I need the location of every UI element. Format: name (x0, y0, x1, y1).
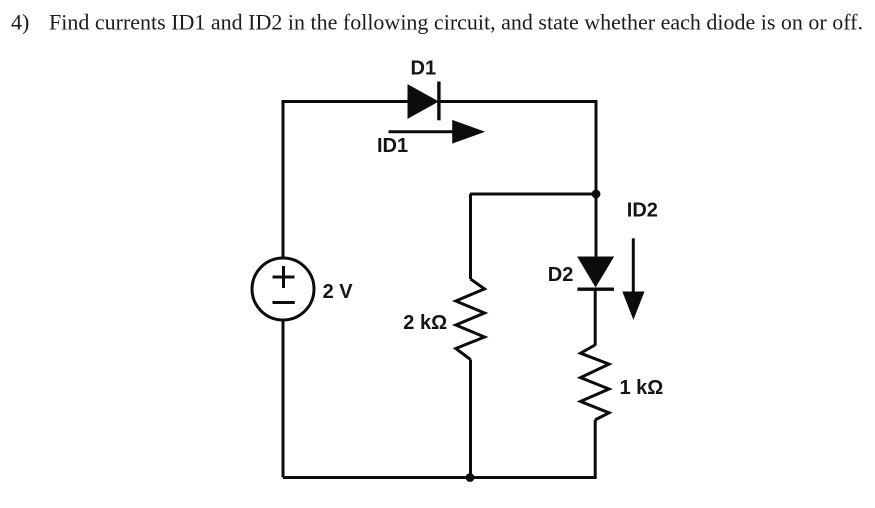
current arrow ID1 (389, 121, 484, 143)
wire: middle branch upper segment (469, 194, 472, 279)
wire: node A down to D2 anode (595, 194, 598, 258)
svg-text:1 kΩ: 1 kΩ (620, 377, 664, 399)
svg-text:2 V: 2 V (323, 281, 354, 303)
diode D2 (577, 257, 614, 289)
svg-text:ID1: ID1 (377, 135, 408, 157)
wire: node A horizontal to middle branch (470, 193, 596, 196)
diode D1 (408, 82, 439, 121)
wire: D2 cathode down to 1 kOhm resistor (594, 289, 597, 345)
svg-text:D1: D1 (411, 58, 437, 80)
current arrow ID2 (623, 238, 644, 318)
svg-text:D2: D2 (548, 264, 574, 286)
wire: middle branch lower segment (469, 360, 472, 478)
svg-text:ID2: ID2 (627, 199, 658, 221)
voltage source V1 2V (252, 258, 314, 320)
svg-text:2 kΩ: 2 kΩ (403, 312, 447, 334)
wire: D1 cathode along top to right rail down to node A (439, 102, 596, 195)
resistor 1 kOhm (581, 345, 610, 420)
node B junction dot on bottom wire (466, 473, 475, 482)
node A junction dot (592, 190, 601, 199)
svg-text:4): 4) (11, 10, 29, 35)
wire: source + up left rail and top wire to D1 anode (283, 102, 409, 259)
wire: right rail bottom segment (283, 420, 595, 478)
svg-text:Find currents ID1 and ID2 in t: Find currents ID1 and ID2 in the followi… (49, 10, 863, 35)
resistor 2 kOhm (456, 279, 485, 360)
problem statement text (11, 10, 863, 35)
wire: source - down left rail to bottom wire (282, 320, 285, 478)
